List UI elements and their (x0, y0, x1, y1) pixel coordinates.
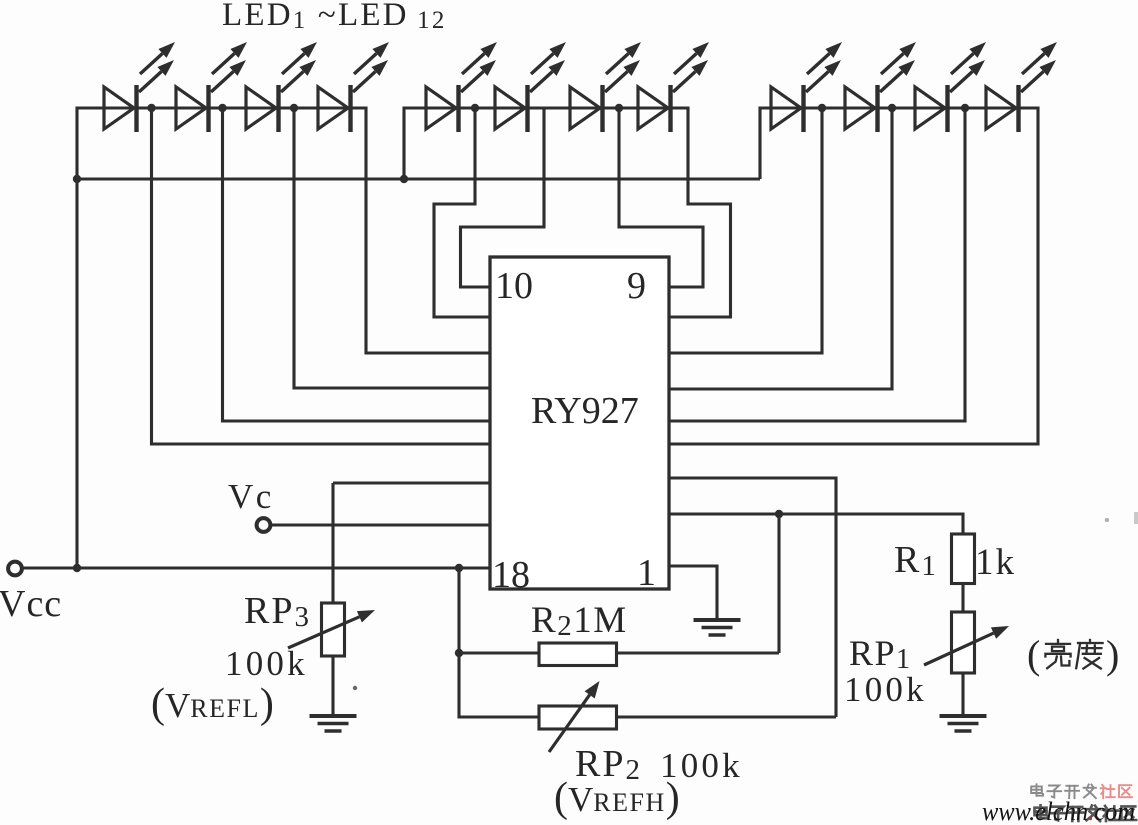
svg-text:1: 1 (637, 552, 656, 594)
svg-text:100k: 100k (225, 644, 308, 683)
svg-text:9: 9 (627, 265, 646, 307)
svg-text:www.elchn.com: www.elchn.com (982, 797, 1135, 825)
svg-text:18: 18 (492, 554, 530, 596)
svg-text:1k: 1k (975, 542, 1016, 583)
svg-text:RY927: RY927 (531, 390, 639, 432)
svg-text:10: 10 (495, 265, 533, 307)
svg-text:R21M: R21M (531, 600, 628, 642)
svg-text:(: ( (1027, 632, 1040, 677)
svg-text:): ) (1106, 632, 1119, 677)
svg-text:Vc: Vc (228, 477, 274, 516)
svg-text:Vcc: Vcc (0, 583, 62, 625)
svg-text:100k: 100k (844, 670, 927, 709)
